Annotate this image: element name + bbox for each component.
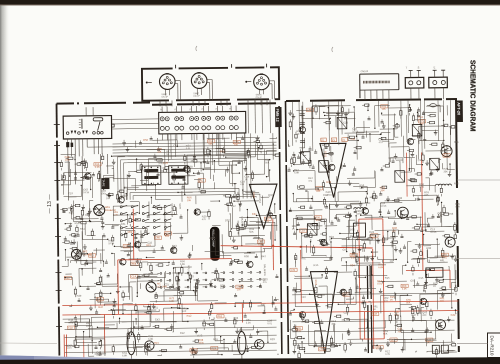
svg-text:100: 100 [234,144,239,147]
svg-text:33K: 33K [380,189,385,192]
svg-text:R12: R12 [180,331,185,335]
svg-text:— 13 —: — 13 — [47,194,53,214]
svg-text:R61: R61 [218,315,223,318]
svg-text:0.01: 0.01 [68,321,73,324]
svg-text:D02: D02 [225,218,230,222]
svg-text:R56: R56 [143,138,148,142]
svg-text:4.7K: 4.7K [385,353,390,356]
svg-text:R08: R08 [132,263,137,266]
svg-text:47u: 47u [308,180,313,183]
svg-text:CN102: CN102 [361,70,369,73]
svg-text:HA1457: HA1457 [258,194,261,203]
svg-text:C55: C55 [123,185,128,189]
svg-text:2.2K: 2.2K [246,321,251,324]
svg-text:R47: R47 [412,313,417,317]
svg-text:1K: 1K [166,153,169,156]
svg-text:R01: R01 [300,313,305,317]
svg-text:E: E [434,65,436,69]
svg-text:R34: R34 [142,168,147,172]
svg-text:470: 470 [240,183,245,186]
svg-text:220: 220 [422,314,427,317]
svg-text:10K: 10K [106,197,111,200]
svg-text:IC02: IC02 [252,192,256,198]
svg-text:C14: C14 [131,275,136,278]
svg-text:4.7K: 4.7K [455,205,460,208]
svg-text:6.8K: 6.8K [122,354,127,357]
svg-text:100u: 100u [86,325,92,328]
svg-text:33K: 33K [157,150,162,153]
svg-text:0.01: 0.01 [186,147,191,150]
svg-text:10K: 10K [381,108,386,111]
svg-text:470: 470 [202,218,207,221]
svg-text:100: 100 [220,287,225,290]
svg-text:33K: 33K [316,190,321,193]
svg-text:1K: 1K [373,308,376,311]
svg-text:R47: R47 [98,305,103,309]
svg-text:R56: R56 [448,212,453,216]
svg-text:470: 470 [354,224,359,227]
svg-text:C26: C26 [163,161,168,165]
svg-text:6.8K: 6.8K [294,171,299,174]
svg-text:TAPE: TAPE [101,179,105,186]
svg-text:R15: R15 [154,341,159,345]
svg-text:100: 100 [182,310,187,313]
svg-text:SCHEMATIC DIAGRAM: SCHEMATIC DIAGRAM [468,60,477,132]
svg-text:C43: C43 [155,317,160,321]
svg-text:CN 4P: CN 4P [161,97,168,99]
svg-text:R15: R15 [444,154,449,157]
svg-text:100: 100 [165,235,170,238]
svg-text:C22: C22 [451,313,456,317]
svg-text:10/16: 10/16 [83,191,90,194]
svg-text:R56: R56 [454,181,459,185]
svg-text:47u: 47u [96,354,101,357]
svg-text:R08: R08 [426,246,431,250]
svg-text:C19: C19 [68,191,73,195]
svg-text:6.8K: 6.8K [180,263,185,266]
svg-text:1K: 1K [329,238,332,241]
svg-text:R29: R29 [211,347,216,350]
svg-text:C43: C43 [201,190,206,194]
svg-text:C31: C31 [121,222,126,226]
svg-text:100u: 100u [101,192,107,195]
svg-text:R73: R73 [198,334,203,338]
svg-text:56K: 56K [265,161,270,164]
svg-text:6.8K: 6.8K [148,338,153,341]
svg-text:1K: 1K [433,285,436,288]
svg-text:C22: C22 [343,121,348,125]
svg-text:AFT-20: AFT-20 [456,102,461,115]
svg-text:R29: R29 [270,337,275,341]
svg-text:C31: C31 [319,348,324,351]
svg-text:470: 470 [440,300,445,303]
svg-text:10/16: 10/16 [108,242,115,245]
svg-text:10/16: 10/16 [191,352,198,355]
svg-text:6.8K: 6.8K [378,266,383,269]
svg-text:4.7K: 4.7K [296,330,301,333]
svg-text:C55: C55 [155,237,160,240]
svg-text:C31: C31 [291,269,296,272]
svg-text:10K: 10K [187,199,192,202]
svg-text:C19: C19 [300,229,305,232]
svg-text:1K: 1K [390,298,393,301]
svg-text:D02: D02 [350,227,355,231]
svg-text:R08: R08 [244,254,249,258]
svg-text:R15: R15 [89,254,94,257]
svg-text:TAPE: TAPE [178,203,181,210]
svg-text:2.2K: 2.2K [95,166,100,169]
svg-text:C26: C26 [344,311,349,315]
svg-text:FM8-12: FM8-12 [275,109,279,122]
svg-text:R47: R47 [372,313,377,316]
svg-text:100u: 100u [65,159,71,162]
svg-text:R47: R47 [231,204,236,208]
svg-text:BALANCE: BALANCE [263,264,266,276]
svg-text:SELECTOR: SELECTOR [170,203,174,217]
svg-text:6.8K: 6.8K [169,300,174,303]
svg-text:33K: 33K [443,170,448,173]
svg-text:470: 470 [379,141,384,144]
svg-text:R56: R56 [209,236,214,240]
svg-text:100: 100 [237,288,242,291]
svg-text:S: S [418,65,420,69]
svg-text:R47: R47 [261,254,266,258]
svg-text:0.01: 0.01 [267,322,272,325]
svg-text:1K: 1K [245,178,248,181]
svg-text:R15: R15 [385,276,390,280]
svg-text:10/16: 10/16 [380,205,387,208]
svg-text:CN 4P: CN 4P [193,96,200,98]
svg-text:C43: C43 [350,137,355,141]
svg-text:DA–R210: DA–R210 [490,336,495,356]
svg-text:R01: R01 [454,140,459,144]
svg-text:33K: 33K [331,323,336,326]
svg-text:R61: R61 [440,258,445,262]
svg-text:470: 470 [384,299,389,302]
svg-text:0.01: 0.01 [372,237,377,240]
svg-text:C14: C14 [301,295,306,299]
svg-text:47u: 47u [263,281,268,284]
svg-text:IC03: IC03 [314,280,318,286]
svg-text:4.7K: 4.7K [419,186,424,189]
svg-text:CN 4P: CN 4P [256,97,263,99]
svg-text:R12: R12 [187,314,192,318]
svg-text:R08: R08 [232,195,237,199]
svg-text:R29: R29 [77,294,82,298]
svg-text:2.2K: 2.2K [402,287,407,290]
svg-text:VOLUME: VOLUME [187,265,190,276]
svg-text:0.01: 0.01 [377,282,382,285]
svg-text:C07: C07 [410,279,415,283]
svg-text:10/16: 10/16 [326,194,333,197]
svg-text:56K: 56K [406,301,411,304]
svg-text:56K: 56K [383,333,388,336]
svg-text:56K: 56K [249,231,254,234]
svg-text:R15: R15 [314,263,319,267]
svg-text:R15: R15 [419,276,424,280]
svg-text:R61: R61 [213,337,218,341]
svg-text:1K: 1K [427,341,430,344]
svg-text:Q03: Q03 [391,339,396,342]
svg-text:R47: R47 [320,293,325,297]
